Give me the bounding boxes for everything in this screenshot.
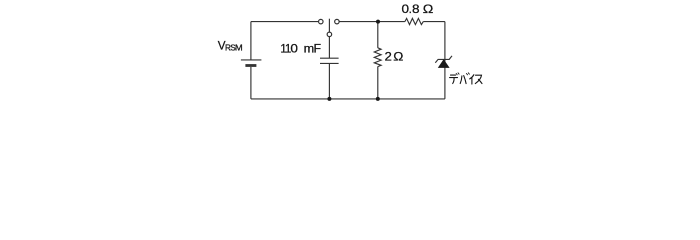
battery V_RSM positive plate [241,59,262,61]
katakana i [470,75,474,84]
battery V_RSM negative plate [245,64,256,67]
wire top rail right (switch right contact to 0.8ohm resistor) [339,21,405,23]
katakana de [450,75,458,83]
capacitor C 110mF top plate [320,57,339,59]
switch pole circle [327,32,332,37]
wire battery bottom lead [250,67,252,99]
switch contact circle left [319,19,324,24]
svg-text:Ω: Ω [393,50,403,63]
wire top rail to right corner [423,21,445,23]
svg-text:Ω: Ω [423,2,434,16]
zener diode cathode bar with ticks [435,56,452,63]
wire 2ohm top lead [377,22,379,48]
label 110 mF [280,42,321,56]
wire switch pole to capacitor [328,37,330,59]
capacitor C 110mF bottom plate [320,62,339,64]
wire battery top lead [250,22,252,60]
katakana ba [460,76,466,84]
resistor R1 0.8 ohm zigzag [405,18,423,24]
switch contact circle right [335,19,340,24]
svg-text:0: 0 [290,42,298,55]
svg-text:F: F [313,42,321,56]
junction dot top of 2 ohm [376,20,380,24]
zener diode triangle (device) [438,60,449,68]
svg-text:M: M [235,43,243,52]
label 2 ohm [384,50,403,63]
label 0.8 ohm [401,2,433,16]
junction dot bottom of 2 ohm [376,97,380,101]
wire right branch (device branch vertical) [444,22,446,99]
katakana su [475,75,482,83]
svg-text:2: 2 [384,50,391,63]
resistor R2 2 ohm zigzag [374,48,381,67]
wire bottom rail [251,98,445,100]
svg-text:8: 8 [412,3,420,16]
junction dot bottom of capacitor [327,97,331,101]
wire top rail left (battery to switch left contact) [251,21,319,23]
label device (katakana debaisu) [450,73,482,84]
wire 2ohm bottom lead [377,67,379,99]
switch SW lever [328,19,330,33]
wire capacitor to bottom rail [328,63,330,99]
